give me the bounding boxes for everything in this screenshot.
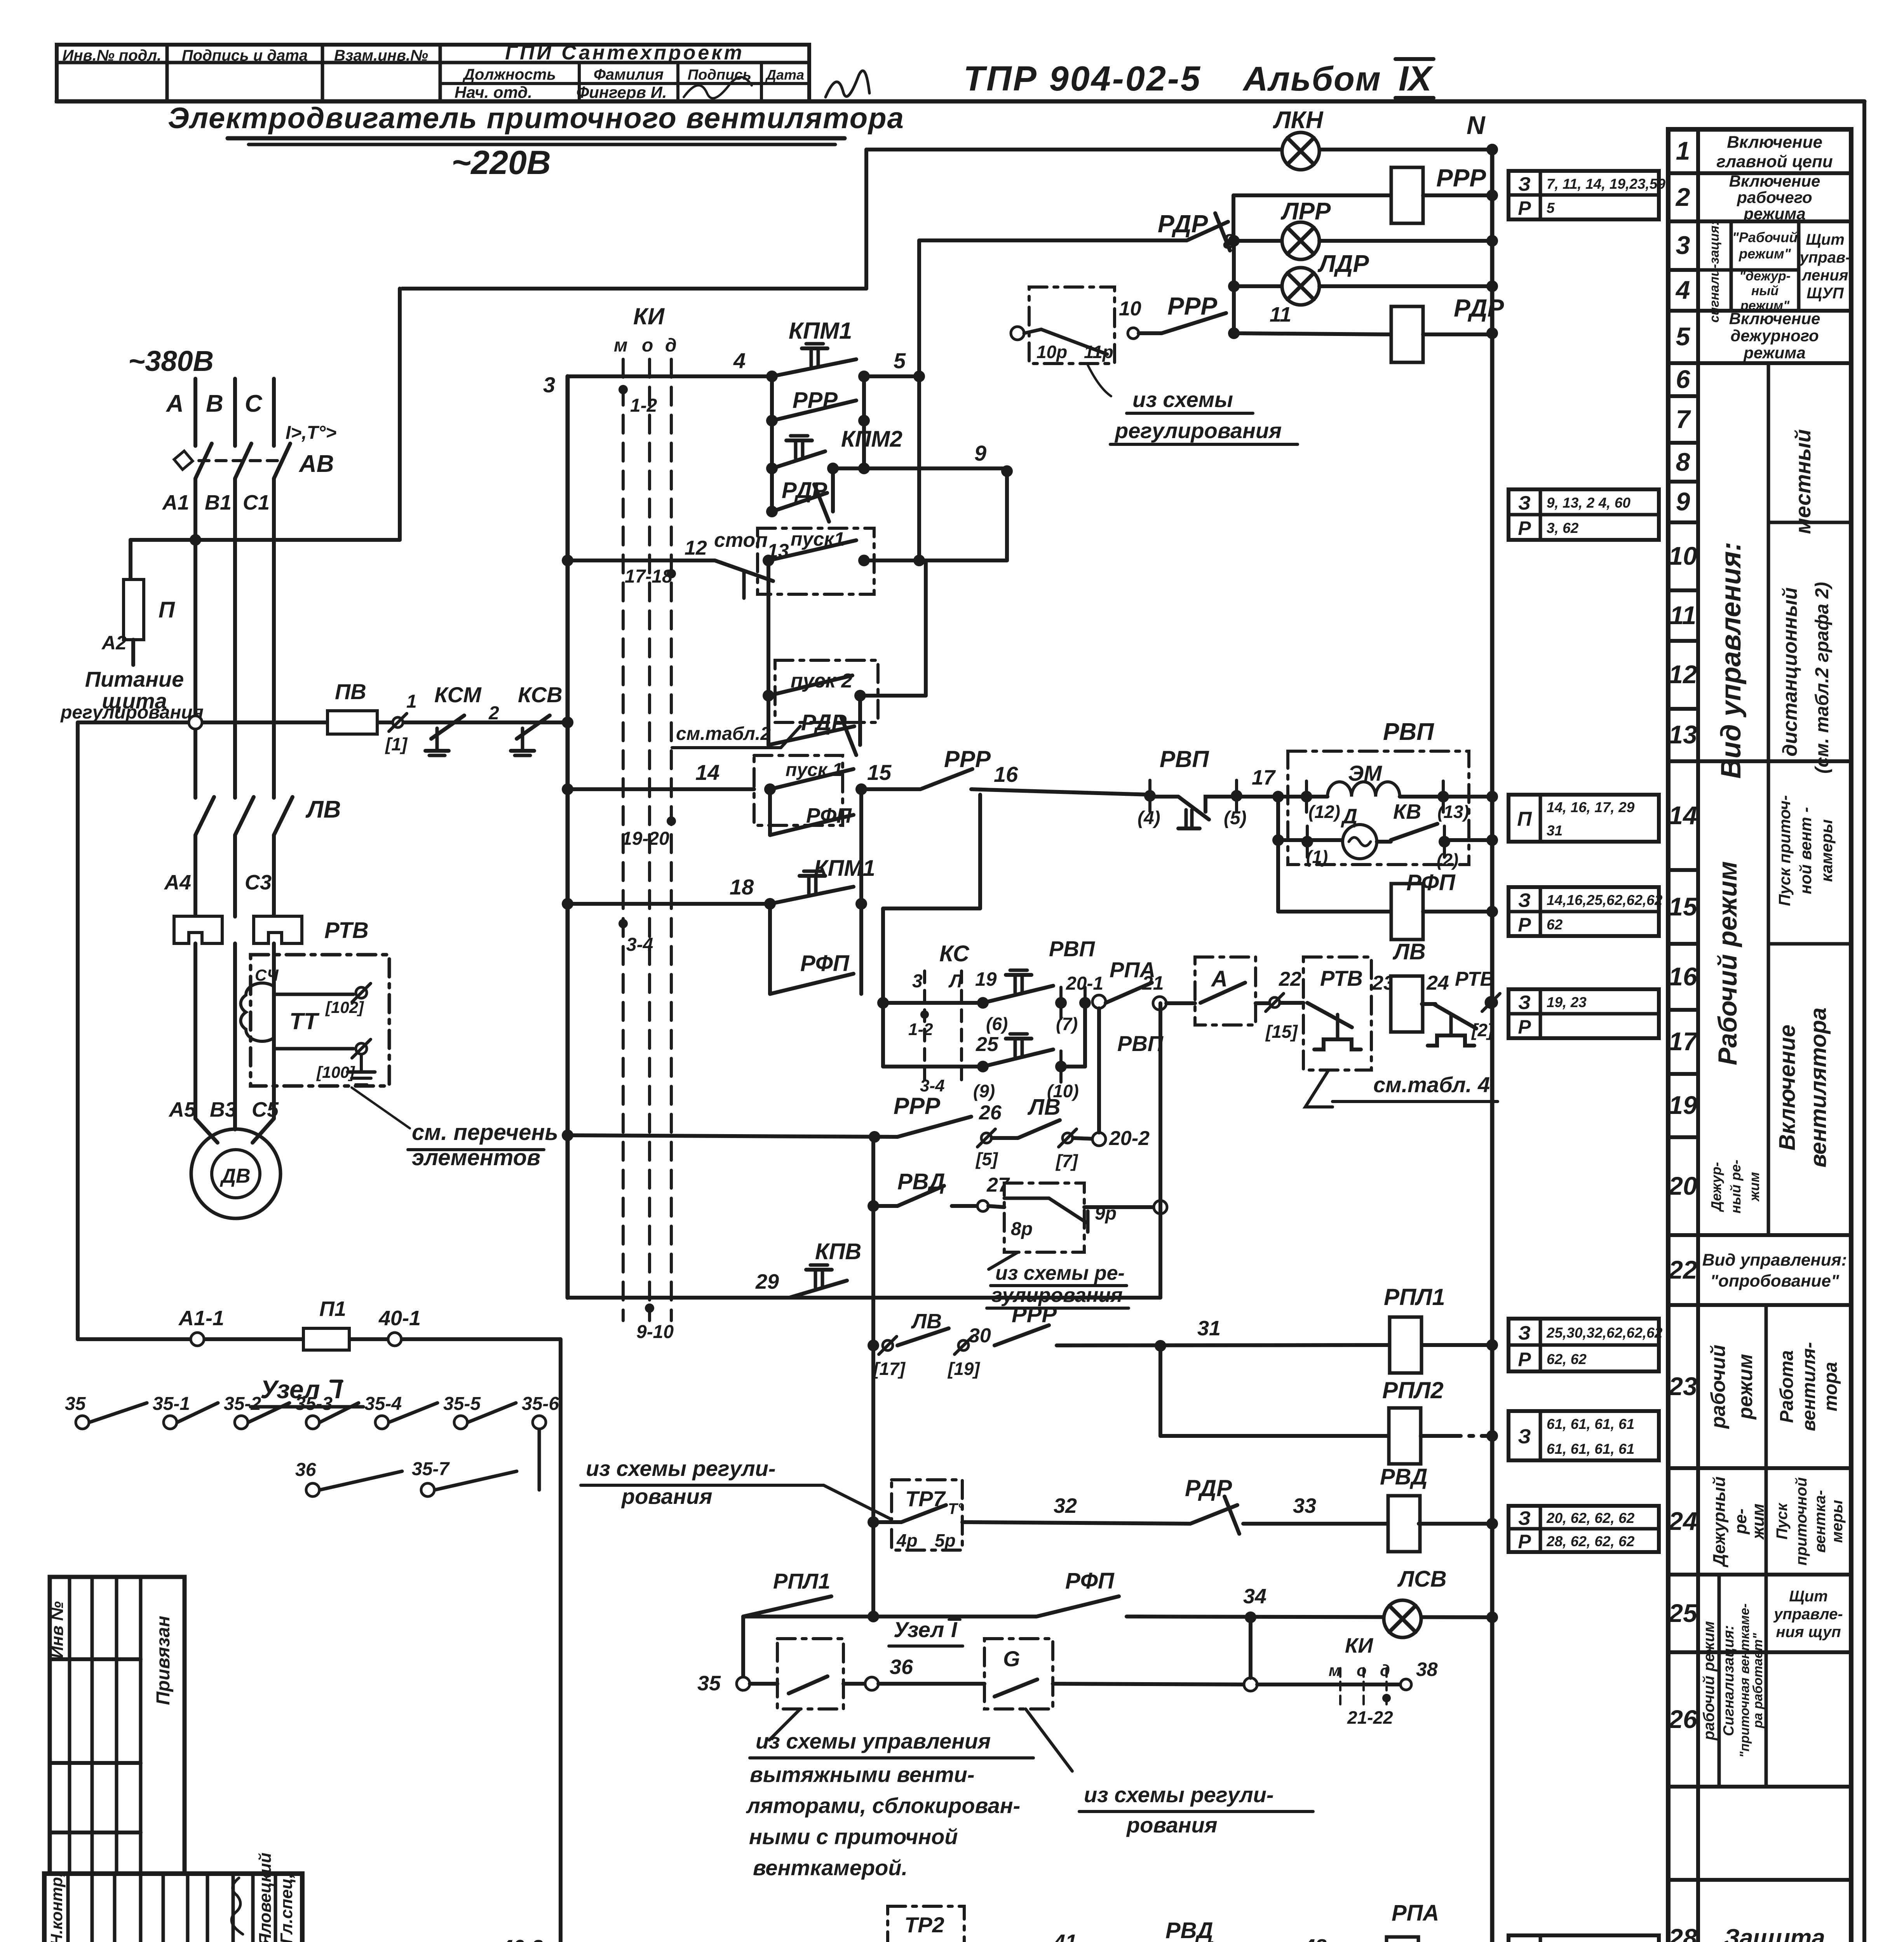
svg-text:8р: 8р [1011, 1219, 1033, 1239]
svg-text:"опробование": "опробование" [1710, 1271, 1840, 1290]
svg-text:РРР: РРР [1436, 164, 1486, 192]
svg-text:3: 3 [543, 372, 555, 397]
svg-text:ный: ный [1751, 284, 1779, 298]
svg-text:20-2: 20-2 [1109, 1127, 1150, 1150]
svg-text:(12): (12) [1308, 802, 1340, 822]
svg-text:Р: Р [1518, 914, 1531, 936]
svg-text:5: 5 [1676, 322, 1691, 351]
svg-text:Р: Р [1518, 517, 1531, 539]
svg-text:местный: местный [1791, 429, 1815, 534]
svg-text:I: I [335, 1375, 343, 1404]
svg-text:З: З [1518, 1425, 1531, 1448]
svg-text:3: 3 [912, 971, 923, 992]
svg-text:Инв №: Инв № [48, 1601, 67, 1658]
svg-text:Инв.№ подл.: Инв.№ подл. [63, 47, 162, 64]
svg-text:3: 3 [1676, 231, 1690, 259]
svg-text:1: 1 [1676, 136, 1690, 165]
svg-text:Привязан: Привязан [153, 1616, 174, 1705]
svg-text:23: 23 [1668, 1372, 1697, 1401]
svg-text:(1): (1) [1306, 847, 1328, 867]
svg-text:П: П [159, 597, 175, 623]
svg-text:РПЛ1: РПЛ1 [1384, 1284, 1445, 1310]
svg-text:13: 13 [1669, 720, 1697, 749]
svg-text:Пуск приточ-: Пуск приточ- [1775, 795, 1794, 906]
svg-text:1: 1 [406, 691, 417, 712]
svg-text:(4): (4) [1138, 808, 1160, 828]
svg-text:РВП: РВП [1160, 746, 1209, 772]
svg-text:РТВ: РТВ [324, 918, 369, 943]
svg-text:Работа: Работа [1777, 1350, 1797, 1423]
svg-text:тора: тора [1820, 1362, 1841, 1411]
svg-text:Дежур-: Дежур- [1708, 1162, 1724, 1213]
svg-text:20, 62, 62, 62: 20, 62, 62, 62 [1546, 1510, 1635, 1526]
svg-text:о: о [1357, 1661, 1367, 1679]
svg-text:ТТ: ТТ [289, 1008, 320, 1034]
svg-text:А4: А4 [164, 871, 191, 894]
svg-text:(6): (6) [986, 1014, 1008, 1034]
svg-text:62: 62 [1547, 917, 1563, 933]
svg-text:35-6: 35-6 [522, 1394, 559, 1414]
svg-text:Взам.инв.№: Взам.инв.№ [334, 47, 428, 64]
svg-text:18: 18 [730, 875, 754, 899]
svg-text:З: З [1518, 1939, 1531, 1942]
svg-text:35-1: 35-1 [153, 1394, 190, 1414]
svg-text:ления: ления [1801, 267, 1848, 284]
svg-text:П1: П1 [319, 1297, 346, 1321]
svg-text:9: 9 [974, 441, 986, 465]
svg-text:РРР: РРР [793, 388, 838, 413]
svg-text:Включение: Включение [1729, 172, 1820, 190]
svg-text:меры: меры [1829, 1500, 1846, 1543]
svg-text:жим: жим [1746, 1172, 1762, 1202]
svg-text:Р: Р [1518, 197, 1531, 219]
svg-text:Гл.спец,: Гл.спец, [277, 1874, 296, 1942]
svg-text:Должность: Должность [462, 66, 556, 83]
svg-text:22: 22 [1668, 1255, 1697, 1284]
svg-text:АВ: АВ [298, 451, 334, 477]
svg-text:ния щуп: ния щуп [1776, 1624, 1841, 1641]
svg-text:КПВ: КПВ [815, 1239, 861, 1264]
svg-text:I>,T°>: I>,T°> [286, 423, 336, 443]
svg-text:"приточная венткаме-: "приточная венткаме- [1737, 1603, 1752, 1758]
svg-text:14, 16, 17, 29: 14, 16, 17, 29 [1547, 799, 1635, 815]
svg-text:42: 42 [1303, 1935, 1327, 1942]
svg-text:10р: 10р [1036, 342, 1067, 362]
svg-text:14: 14 [1669, 801, 1697, 830]
svg-text:З: З [1518, 492, 1531, 514]
svg-text:34: 34 [1243, 1585, 1266, 1608]
svg-text:Альбом: Альбом [1242, 59, 1381, 98]
svg-text:(см. табл.2 графа 2): (см. табл.2 графа 2) [1812, 582, 1833, 773]
svg-text:[102]: [102] [325, 998, 364, 1016]
svg-text:КИ: КИ [633, 303, 665, 329]
svg-text:рабочего: рабочего [1737, 188, 1812, 207]
svg-text:35: 35 [65, 1394, 86, 1414]
svg-text:ЛРР: ЛРР [1280, 198, 1331, 225]
svg-text:3-4: 3-4 [920, 1076, 945, 1095]
svg-text:из схемы ре-: из схемы ре- [995, 1262, 1125, 1284]
svg-text:рабочий: рабочий [1707, 1345, 1730, 1429]
svg-text:ЛВ: ЛВ [911, 1310, 942, 1333]
svg-text:КПМ1: КПМ1 [789, 318, 852, 344]
svg-text:ЛКН: ЛКН [1273, 107, 1324, 134]
svg-text:35: 35 [697, 1672, 721, 1695]
svg-text:вентиля-: вентиля- [1799, 1342, 1819, 1431]
svg-text:21-22: 21-22 [1347, 1707, 1393, 1728]
svg-text:режим: режим [1734, 1354, 1757, 1420]
svg-text:управ-: управ- [1799, 249, 1851, 266]
svg-text:[7]: [7] [1055, 1151, 1078, 1171]
svg-text:17: 17 [1669, 1027, 1698, 1056]
svg-text:жим: жим [1749, 1503, 1768, 1540]
svg-text:РТВ: РТВ [1320, 966, 1363, 990]
svg-text:РПЛ1: РПЛ1 [773, 1569, 830, 1593]
svg-text:элементов: элементов [412, 1145, 540, 1170]
svg-text:4: 4 [733, 348, 746, 373]
svg-text:РРР: РРР [894, 1093, 941, 1119]
svg-text:ЛВ: ЛВ [305, 796, 341, 823]
svg-text:Фингерв И.: Фингерв И. [576, 83, 667, 101]
svg-text:33: 33 [1293, 1494, 1316, 1517]
svg-text:РДР: РДР [1158, 210, 1208, 238]
svg-text:РФП: РФП [1406, 870, 1456, 895]
svg-text:21: 21 [1142, 972, 1164, 994]
svg-text:Нач. отд.: Нач. отд. [455, 83, 532, 101]
svg-text:В3: В3 [210, 1098, 237, 1121]
svg-text:РФП: РФП [1065, 1568, 1115, 1594]
svg-text:1-2: 1-2 [630, 395, 657, 416]
svg-text:РПА: РПА [1392, 1900, 1439, 1926]
svg-text:рования: рования [1126, 1813, 1218, 1837]
svg-text:40-1: 40-1 [378, 1307, 421, 1330]
svg-text:А2: А2 [101, 632, 127, 654]
svg-text:РРР: РРР [944, 746, 991, 772]
svg-text:14: 14 [695, 760, 719, 785]
svg-text:3-4: 3-4 [626, 934, 653, 955]
svg-text:гулирования: гулирования [991, 1284, 1123, 1307]
svg-text:17-18: 17-18 [625, 566, 672, 587]
svg-text:РВП: РВП [1383, 719, 1434, 745]
svg-text:дежурного: дежурного [1730, 327, 1819, 345]
svg-text:КИ: КИ [1345, 1634, 1373, 1657]
svg-text:Р: Р [1518, 1349, 1531, 1370]
svg-text:сигнали-зация:: сигнали-зация: [1707, 221, 1722, 322]
svg-text:из схемы управления: из схемы управления [756, 1729, 991, 1753]
svg-text:КСМ: КСМ [434, 682, 482, 707]
svg-text:20: 20 [1668, 1171, 1697, 1200]
svg-text:62, 62: 62, 62 [1547, 1351, 1587, 1367]
svg-text:А1-1: А1-1 [178, 1307, 224, 1330]
svg-text:"дежур-: "дежур- [1739, 269, 1791, 284]
svg-text:РФП: РФП [800, 951, 850, 976]
svg-text:А: А [165, 390, 184, 417]
svg-text:7, 11, 14, 19,23,59: 7, 11, 14, 19,23,59 [1547, 176, 1665, 192]
svg-text:Н.контр,: Н.контр, [47, 1872, 66, 1942]
svg-text:КС: КС [939, 941, 970, 966]
svg-text:П: П [1517, 808, 1532, 830]
svg-text:режим": режим" [1740, 298, 1790, 313]
svg-text:ЛВ: ЛВ [1392, 939, 1426, 964]
svg-text:Рабочий режим: Рабочий режим [1713, 861, 1742, 1065]
svg-text:19: 19 [975, 968, 997, 990]
svg-text:приточной: приточной [1793, 1477, 1810, 1565]
svg-text:61, 61, 61, 61: 61, 61, 61, 61 [1547, 1416, 1634, 1432]
svg-text:35-4: 35-4 [364, 1394, 402, 1414]
svg-text:РДР: РДР [1185, 1475, 1232, 1501]
svg-text:8: 8 [1676, 447, 1690, 476]
svg-text:40-2: 40-2 [501, 1936, 543, 1942]
svg-text:~380В: ~380В [128, 345, 214, 377]
svg-text:35-5: 35-5 [443, 1394, 481, 1414]
svg-text:ДВ: ДВ [219, 1165, 250, 1187]
svg-text:[2]: [2] [1471, 1020, 1494, 1040]
svg-text:12: 12 [1669, 660, 1697, 689]
svg-text:16: 16 [994, 762, 1018, 787]
svg-text:Сигнализация:: Сигнализация: [1721, 1625, 1737, 1736]
svg-text:вытяжными венти-: вытяжными венти- [750, 1762, 975, 1787]
svg-text:Питание: Питание [85, 667, 184, 691]
svg-text:17: 17 [1252, 766, 1276, 789]
svg-text:см. перечень: см. перечень [412, 1120, 558, 1145]
svg-text:З: З [1518, 889, 1531, 911]
svg-text:ЭМ: ЭМ [1348, 761, 1382, 785]
svg-text:(9): (9) [973, 1081, 995, 1101]
svg-text:ЛСВ: ЛСВ [1397, 1566, 1447, 1592]
svg-text:камеры: камеры [1817, 819, 1836, 882]
svg-text:31: 31 [1547, 823, 1563, 839]
svg-text:из схемы регули-: из схемы регули- [1084, 1782, 1274, 1807]
svg-text:24: 24 [1426, 972, 1449, 994]
svg-text:Яловецкий: Яловецкий [256, 1853, 275, 1942]
svg-text:1-2: 1-2 [908, 1020, 933, 1039]
svg-text:Т°: Т° [947, 1940, 962, 1942]
svg-text:9: 9 [1676, 487, 1690, 516]
svg-text:31: 31 [1197, 1317, 1221, 1340]
svg-text:(7): (7) [1056, 1014, 1078, 1034]
svg-text:РФП: РФП [806, 804, 852, 827]
svg-text:РВД: РВД [897, 1169, 945, 1194]
svg-text:см.табл.2: см.табл.2 [676, 724, 771, 744]
svg-text:36: 36 [890, 1655, 913, 1679]
svg-text:35-3: 35-3 [295, 1394, 333, 1414]
svg-text:А: А [1211, 966, 1228, 992]
svg-text:15: 15 [1669, 892, 1698, 921]
svg-text:19, 23: 19, 23 [1547, 994, 1587, 1010]
svg-text:рабочий режим: рабочий режим [1700, 1621, 1718, 1741]
svg-text:Д: Д [1341, 805, 1357, 828]
svg-text:Вид управления:: Вид управления: [1702, 1250, 1847, 1269]
svg-text:КВ: КВ [1393, 800, 1421, 823]
svg-text:В: В [206, 390, 223, 417]
svg-text:КПМ2: КПМ2 [841, 426, 902, 452]
svg-text:25,30,32,62,62,62: 25,30,32,62,62,62 [1546, 1325, 1663, 1341]
svg-text:9-10: 9-10 [636, 1322, 674, 1342]
svg-text:28: 28 [1668, 1923, 1697, 1942]
svg-text:стоп: стоп [714, 529, 768, 552]
svg-text:29: 29 [755, 1270, 779, 1293]
svg-text:Р: Р [1518, 1016, 1531, 1038]
svg-text:РДР: РДР [1454, 294, 1504, 322]
svg-text:(2): (2) [1437, 850, 1458, 870]
svg-text:10: 10 [1669, 541, 1697, 570]
svg-text:~220В: ~220В [451, 144, 551, 181]
svg-text:28, 62, 62, 62: 28, 62, 62, 62 [1546, 1533, 1635, 1549]
svg-text:ЩУП: ЩУП [1806, 285, 1844, 302]
svg-text:А5: А5 [168, 1098, 196, 1121]
svg-text:[17]: [17] [873, 1359, 906, 1379]
svg-text:41: 41 [1053, 1930, 1077, 1942]
svg-text:Электродвигатель приточного: Электродвигатель приточного вентилятора [168, 102, 904, 135]
svg-text:26: 26 [979, 1102, 1002, 1124]
svg-text:11: 11 [1270, 303, 1291, 326]
svg-text:2: 2 [1675, 183, 1690, 211]
svg-text:главной цепи: главной цепи [1716, 152, 1833, 171]
svg-text:режим": режим" [1739, 246, 1791, 262]
svg-text:рования: рования [621, 1484, 712, 1509]
svg-text:режима: режима [1743, 344, 1805, 362]
svg-text:10: 10 [1119, 298, 1141, 320]
svg-text:14,16,25,62,62,62: 14,16,25,62,62,62 [1547, 892, 1663, 908]
svg-text:5р: 5р [935, 1530, 956, 1550]
svg-text:25: 25 [1668, 1599, 1698, 1627]
svg-text:ре-: ре- [1731, 1509, 1750, 1535]
svg-text:15: 15 [867, 760, 892, 785]
svg-text:IX: IX [1399, 59, 1434, 98]
svg-text:4: 4 [1675, 275, 1690, 304]
svg-text:11: 11 [1670, 601, 1697, 630]
svg-text:ЛВ: ЛВ [1027, 1095, 1061, 1120]
svg-text:З: З [1518, 1322, 1531, 1344]
svg-text:венткамерой.: венткамерой. [753, 1855, 908, 1880]
svg-text:РТВ: РТВ [1455, 968, 1495, 990]
svg-text:26: 26 [1668, 1705, 1698, 1733]
svg-text:РВД: РВД [1165, 1918, 1213, 1942]
svg-text:регулирования: регулирования [60, 702, 204, 723]
svg-text:С: С [245, 390, 263, 417]
svg-text:(13): (13) [1437, 802, 1469, 822]
svg-text:[19]: [19] [947, 1359, 980, 1379]
svg-text:G: G [1003, 1646, 1020, 1671]
svg-text:С3: С3 [245, 871, 272, 894]
svg-text:Дата: Дата [765, 67, 804, 83]
svg-text:24: 24 [1668, 1507, 1697, 1535]
svg-text:16: 16 [1669, 962, 1698, 991]
svg-text:д: д [1380, 1661, 1390, 1679]
svg-text:РРР: РРР [1012, 1302, 1057, 1327]
svg-text:7: 7 [1676, 405, 1691, 433]
svg-text:35-7: 35-7 [412, 1459, 450, 1479]
svg-text:ТПР 904-02-5: ТПР 904-02-5 [963, 59, 1202, 98]
svg-text:2: 2 [488, 703, 499, 724]
svg-text:РВД: РВД [1380, 1464, 1427, 1490]
svg-text:КПМ1: КПМ1 [814, 856, 875, 881]
svg-text:о: о [642, 335, 653, 356]
svg-text:РРР: РРР [1167, 292, 1217, 320]
svg-text:25: 25 [976, 1033, 999, 1056]
svg-text:д: д [665, 335, 677, 356]
svg-text:З: З [1518, 1507, 1531, 1529]
svg-text:Фамилия: Фамилия [594, 66, 664, 83]
svg-text:Р: Р [1518, 1531, 1531, 1552]
svg-text:РВП: РВП [1117, 1031, 1164, 1056]
svg-text:61, 61, 61, 61: 61, 61, 61, 61 [1547, 1441, 1634, 1457]
svg-text:Защита: Защита [1724, 1925, 1825, 1942]
svg-text:РВП: РВП [1049, 936, 1096, 961]
svg-text:ТР2: ТР2 [904, 1912, 944, 1937]
svg-text:Вид управления:: Вид управления: [1716, 542, 1747, 779]
svg-text:ляторами, сблокирован-: ляторами, сблокирован- [746, 1793, 1020, 1818]
svg-text:режима: режима [1743, 205, 1805, 223]
svg-text:м: м [1329, 1661, 1341, 1679]
svg-text:ГПИ Сантехпроект: ГПИ Сантехпроект [505, 42, 744, 64]
svg-text:19-20: 19-20 [622, 828, 669, 849]
svg-text:Щит: Щит [1806, 231, 1845, 248]
svg-text:35-2: 35-2 [224, 1394, 261, 1414]
svg-text:[5]: [5] [975, 1149, 998, 1169]
svg-text:вентка-: вентка- [1812, 1490, 1829, 1552]
svg-text:Включение: Включение [1727, 132, 1822, 151]
svg-text:Узел: Узел [894, 1617, 944, 1642]
svg-text:ной вент -: ной вент - [1796, 807, 1815, 894]
svg-text:20-1: 20-1 [1066, 973, 1103, 994]
svg-text:3, 62: 3, 62 [1547, 520, 1579, 536]
svg-text:З: З [1518, 173, 1531, 195]
svg-text:6: 6 [1676, 365, 1691, 393]
svg-text:Пуск: Пуск [1773, 1503, 1791, 1540]
svg-text:Т°: Т° [948, 1500, 964, 1517]
svg-text:управле-: управле- [1773, 1606, 1843, 1623]
svg-text:27: 27 [986, 1174, 1010, 1196]
svg-text:вентилятора: вентилятора [1806, 1008, 1831, 1168]
svg-text:"Рабочий: "Рабочий [1732, 230, 1798, 245]
svg-text:5: 5 [894, 348, 906, 373]
svg-text:из схемы: из схемы [1132, 387, 1233, 412]
svg-text:22: 22 [1279, 968, 1301, 990]
svg-text:19: 19 [1669, 1091, 1697, 1119]
svg-text:[15]: [15] [1265, 1021, 1298, 1042]
svg-text:из схемы регули-: из схемы регули- [586, 1456, 776, 1481]
svg-text:11р: 11р [1084, 342, 1113, 362]
svg-text:38: 38 [1416, 1658, 1438, 1680]
svg-text:5: 5 [1547, 200, 1555, 216]
svg-text:[1]: [1] [385, 734, 408, 754]
svg-text:м: м [614, 335, 628, 356]
svg-text:ПВ: ПВ [335, 679, 366, 704]
svg-text:РДР: РДР [782, 478, 827, 503]
svg-text:КСВ: КСВ [518, 682, 563, 707]
svg-text:I: I [951, 1617, 958, 1642]
svg-text:З: З [1518, 992, 1531, 1013]
svg-text:Включение: Включение [1775, 1025, 1800, 1150]
svg-text:СЧ: СЧ [255, 966, 279, 984]
svg-text:ра работает": ра работает" [1751, 1633, 1765, 1729]
svg-text:9, 13, 2 4, 60: 9, 13, 2 4, 60 [1547, 495, 1631, 511]
svg-text:В1: В1 [205, 491, 232, 514]
svg-text:ЛДР: ЛДР [1317, 251, 1369, 277]
svg-text:С1: С1 [243, 491, 270, 514]
svg-text:Щит: Щит [1789, 1588, 1828, 1605]
svg-text:N: N [1467, 111, 1486, 139]
svg-text:РПЛ2: РПЛ2 [1382, 1377, 1444, 1403]
svg-text:Подпись: Подпись [688, 67, 751, 83]
svg-text:30: 30 [969, 1324, 991, 1347]
svg-text:36: 36 [295, 1460, 316, 1480]
svg-text:ный ре-: ный ре- [1728, 1160, 1744, 1213]
svg-text:32: 32 [1054, 1494, 1077, 1517]
svg-text:дистанционный: дистанционный [1779, 587, 1801, 757]
svg-text:ными с приточной: ными с приточной [749, 1824, 958, 1849]
svg-text:см.табл. 4: см.табл. 4 [1373, 1072, 1490, 1097]
